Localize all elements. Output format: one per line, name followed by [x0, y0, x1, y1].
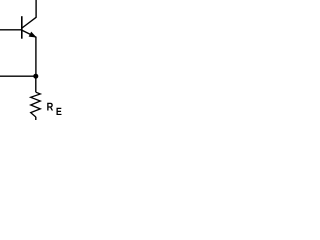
transistor Q1 emitter diagonal [22, 30, 36, 37]
wire: base lead (horizontal to left edge) [0, 29, 22, 31]
wire: resistor top lead [35, 76, 37, 92]
wire: resistor bottom lead (to bottom edge) [35, 117, 37, 120]
transistor Q1 emitter arrowhead [29, 32, 36, 37]
transistor Q1 collector diagonal [22, 17, 36, 28]
label R of RE [47, 103, 53, 111]
transistor Q1 base bar [21, 16, 23, 39]
resistor RE zigzag [31, 92, 41, 117]
wire: horizontal wire to left edge at node [0, 75, 36, 77]
wire: collector lead (vertical to top edge) [35, 0, 37, 18]
node junction dot [33, 74, 38, 79]
label E subscript of RE [56, 108, 61, 115]
wire: emitter lead (vertical down to node) [35, 37, 37, 77]
